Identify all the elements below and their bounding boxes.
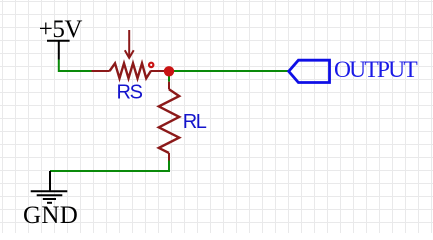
power symbol +5V: [47, 41, 70, 60]
wire junction to OUTPUT: [169, 70, 289, 72]
svg-text:+5V: +5V: [39, 16, 83, 43]
junction node: [164, 66, 174, 76]
wire RL to GND: [50, 161, 169, 172]
svg-text:RS: RS: [117, 81, 143, 103]
resistor RS: [92, 63, 170, 78]
svg-text:RL: RL: [183, 111, 207, 133]
wire +5V to RS: [59, 60, 92, 72]
RS pin marker circle: [149, 63, 153, 67]
svg-text:OUTPUT: OUTPUT: [334, 57, 417, 83]
resistor RL: [159, 82, 179, 161]
wire junction to RL: [168, 71, 170, 82]
RS adjustment arrow: [125, 30, 134, 58]
global label OUTPUT shape: [289, 60, 330, 82]
svg-text:GND: GND: [23, 202, 78, 229]
ground symbol: [31, 171, 68, 203]
